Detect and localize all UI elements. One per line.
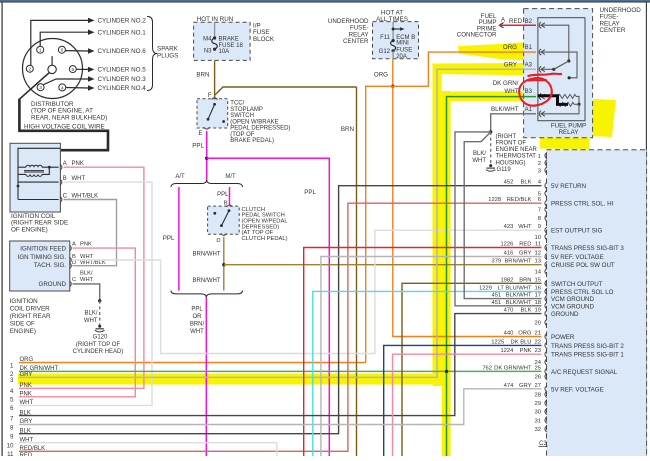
svg-text:451: 451 — [491, 300, 501, 306]
svg-text:VCM GROUND: VCM GROUND — [551, 296, 594, 303]
svg-text:CYLINDER NO.1: CYLINDER NO.1 — [98, 29, 147, 36]
svg-text:BLK: BLK — [20, 410, 31, 416]
wire PNK coil A to row 4 — [19, 167, 144, 388]
svg-text:CLUTCH PEDAL): CLUTCH PEDAL) — [242, 236, 288, 242]
svg-text:WHT: WHT — [72, 176, 86, 182]
svg-text:DK GRN/WHT: DK GRN/WHT — [494, 365, 532, 371]
svg-text:POWER: POWER — [551, 334, 575, 341]
wire GRY 474 pin 27 to row 8 — [19, 389, 542, 425]
svg-text:6: 6 — [61, 48, 64, 54]
svg-text:4: 4 — [61, 85, 64, 91]
svg-text:WHT/BLK: WHT/BLK — [72, 194, 99, 200]
pin E — [204, 127, 210, 129]
right page border — [646, 2, 647, 456]
svg-text:HOUSING): HOUSING) — [496, 160, 526, 166]
svg-text:WHT: WHT — [20, 400, 34, 406]
svg-text:(TOP OF: (TOP OF — [230, 132, 254, 138]
svg-text:A3: A3 — [525, 63, 533, 69]
distributor tower 4 — [59, 84, 66, 91]
svg-text:PPL: PPL — [217, 192, 229, 198]
svg-text:BRAKE: BRAKE — [219, 36, 239, 42]
svg-text:CYLINDER NO.2: CYLINDER NO.2 — [98, 18, 147, 25]
svg-text:BLK/: BLK/ — [473, 151, 486, 157]
svg-text:25: 25 — [534, 365, 541, 371]
highlight horizontal band over GRY row 3 — [18, 374, 447, 385]
svg-text:A: A — [72, 241, 76, 247]
wire BLK 470 pin 19 to row 7 — [19, 314, 542, 416]
svg-text:CENTER: CENTER — [600, 27, 626, 34]
svg-text:2: 2 — [28, 67, 31, 73]
wire to cylinder no.3 — [44, 79, 88, 85]
svg-text:FUSE: FUSE — [396, 48, 412, 54]
wire DK GRN/WHT row 2 to VCM pin 25 — [19, 370, 542, 372]
svg-text:OR: OR — [193, 314, 203, 320]
svg-text:WHT: WHT — [504, 88, 518, 95]
VCM pin 3 — [545, 167, 547, 173]
svg-text:DK BLU: DK BLU — [511, 339, 532, 345]
svg-text:PNK: PNK — [72, 161, 84, 167]
svg-text:DK GRN/: DK GRN/ — [493, 80, 519, 87]
svg-text:416: 416 — [504, 251, 514, 257]
wire DK GRN/WHT relay B3 down — [447, 97, 537, 456]
svg-text:15: 15 — [534, 277, 541, 283]
wire LT BLU/WHT 1229 pin 16 down — [313, 291, 542, 456]
svg-text:CYLINDER NO.6: CYLINDER NO.6 — [98, 48, 147, 55]
svg-text:(OPEN W/BRAKE: (OPEN W/BRAKE — [230, 119, 278, 125]
VCM pin 19 — [545, 310, 547, 316]
svg-text:9: 9 — [538, 224, 541, 230]
highlight blob over ORG wire at relay B1 — [458, 41, 552, 63]
wire ORG to relay B1 — [393, 52, 536, 86]
A/T M/T split brace — [171, 180, 243, 187]
svg-text:E: E — [198, 131, 202, 137]
svg-text:CYLINDER NO.3: CYLINDER NO.3 — [98, 76, 147, 83]
wire BRN fuse to TCC switch pin F — [214, 60, 216, 98]
wire DK BLU 1225 pin 22 down — [384, 345, 542, 456]
wire BRN/WHT to VCM pin 13 CRUISE — [224, 264, 542, 266]
svg-text:D: D — [216, 238, 220, 244]
TCC switch blade — [213, 103, 216, 106]
svg-text:CENTER: CENTER — [343, 38, 369, 45]
wire PNK driver A to row 5 — [19, 248, 135, 397]
svg-text:21: 21 — [534, 331, 541, 337]
svg-text:CYLINDER HEAD): CYLINDER HEAD) — [73, 349, 124, 355]
svg-text:(RIGHT: (RIGHT — [496, 134, 517, 140]
ignition coil driver box — [10, 241, 70, 291]
svg-text:5: 5 — [71, 67, 74, 73]
svg-text:23: 23 — [534, 348, 541, 354]
svg-text:RED/BLK: RED/BLK — [507, 197, 532, 203]
svg-text:RED: RED — [509, 18, 523, 25]
svg-text:HOT IN RUN: HOT IN RUN — [197, 16, 234, 23]
VCM pin 25 — [545, 368, 547, 374]
svg-text:TRANS PRESS SIG-BIT 2: TRANS PRESS SIG-BIT 2 — [551, 343, 624, 350]
arrow CYLINDER NO.1 — [88, 30, 95, 35]
VCM pin 27 — [545, 386, 547, 392]
svg-text:BLK/: BLK/ — [80, 271, 93, 277]
svg-text:8: 8 — [10, 424, 14, 431]
wire PPL to bottom — [205, 297, 207, 456]
svg-text:32: 32 — [534, 427, 541, 433]
ECM B mini fuse symbol — [391, 41, 396, 51]
VCM pin 16 — [545, 288, 547, 294]
I/P fuse block box — [194, 22, 251, 60]
wire BLK/WHT relay A1 to G119 — [491, 114, 536, 132]
pin D — [221, 233, 227, 235]
driver pin C — [69, 281, 71, 287]
svg-text:GRY: GRY — [519, 383, 532, 389]
TCC/stoplamp switch box — [197, 99, 228, 128]
svg-text:F11: F11 — [380, 35, 391, 41]
wire BRN 1982 pin 15 down — [402, 283, 542, 456]
svg-text:RELAY: RELAY — [559, 129, 579, 136]
svg-text:(RIGHT REAR: (RIGHT REAR — [10, 313, 51, 320]
svg-text:C: C — [63, 194, 68, 200]
svg-text:M4: M4 — [203, 36, 212, 42]
svg-text:ENGINE): ENGINE) — [10, 328, 36, 335]
svg-text:29: 29 — [534, 401, 541, 407]
svg-text:3: 3 — [39, 85, 42, 91]
svg-text:(RIGHT TOP OF: (RIGHT TOP OF — [76, 342, 121, 348]
svg-text:BLK: BLK — [521, 308, 532, 314]
svg-text:379: 379 — [491, 259, 501, 265]
svg-text:FRONT OF: FRONT OF — [496, 141, 527, 147]
svg-text:440: 440 — [504, 331, 514, 337]
highlight vertical band over GRY wire — [433, 64, 442, 386]
svg-text:IGN TIMING SIG.: IGN TIMING SIG. — [18, 254, 67, 261]
clutch pedal switch box — [208, 206, 240, 234]
VCM pin 18 — [545, 303, 547, 309]
VCM pin 21 — [545, 333, 547, 339]
wire BLK/WHT driver C to G120 — [73, 284, 100, 301]
relay switch pivot — [567, 59, 570, 62]
svg-text:WHT: WHT — [472, 158, 486, 164]
wire BLK/WHT dashed to G119 — [490, 132, 492, 165]
VCM pin 13 — [545, 262, 547, 268]
svg-text:PRESS CTRL SOL. HI: PRESS CTRL SOL. HI — [551, 201, 614, 208]
svg-text:CRUISE POL SW OUT: CRUISE POL SW OUT — [551, 262, 615, 269]
svg-text:B3: B3 — [525, 89, 533, 95]
VCM pin 15 — [545, 280, 547, 286]
svg-text:G119: G119 — [497, 167, 512, 173]
coil connections — [18, 166, 26, 168]
svg-text:20: 20 — [534, 321, 541, 327]
svg-text:B: B — [63, 176, 67, 182]
svg-text:ORG: ORG — [20, 357, 34, 363]
red annotation circle around relay B3 — [519, 78, 552, 106]
svg-text:WHT: WHT — [20, 437, 34, 443]
svg-text:1982: 1982 — [500, 277, 513, 283]
wire to cylinder no.4 — [66, 87, 88, 90]
relay coil resistor lower — [556, 102, 574, 106]
spark plugs bracket — [147, 16, 157, 90]
svg-text:30: 30 — [534, 410, 541, 416]
coil internal feed line — [18, 148, 60, 199]
VCM pin 14 — [545, 268, 547, 274]
node DK GRN junction — [445, 370, 448, 373]
svg-text:22: 22 — [534, 339, 541, 345]
distributor circle — [23, 39, 83, 99]
svg-text:WHT: WHT — [84, 318, 98, 324]
ground G119 — [487, 167, 495, 169]
VCM pin 30 — [545, 408, 547, 414]
svg-text:VCM GROUND: VCM GROUND — [551, 303, 594, 310]
svg-text:EST OUTPUT SIG: EST OUTPUT SIG — [551, 228, 603, 235]
svg-text:17: 17 — [534, 293, 541, 299]
relay pin A3 — [539, 66, 541, 72]
svg-text:PNK: PNK — [520, 348, 532, 354]
svg-text:WHT: WHT — [80, 277, 94, 283]
svg-text:9: 9 — [10, 434, 14, 441]
svg-text:IGNITION: IGNITION — [10, 298, 38, 305]
svg-text:PNK: PNK — [80, 241, 92, 247]
svg-text:HIGH VOLTAGE COIL WIRE: HIGH VOLTAGE COIL WIRE — [24, 123, 105, 130]
svg-text:12: 12 — [534, 251, 541, 257]
VCM pin 4 — [545, 183, 547, 189]
svg-text:BRN: BRN — [519, 277, 531, 283]
VCM pin 20 — [545, 319, 547, 325]
VCM pin 29 — [545, 400, 547, 406]
VCM pin 31 — [545, 417, 547, 423]
svg-text:BRN/WHT: BRN/WHT — [193, 252, 221, 258]
clutch switch blade — [228, 209, 231, 212]
svg-text:6: 6 — [10, 405, 14, 412]
fuel pump relay box — [538, 18, 585, 121]
svg-text:PPL: PPL — [304, 189, 316, 196]
wire PPL M/T branch — [229, 187, 231, 206]
svg-text:GRY: GRY — [519, 251, 532, 257]
wire ORG to VCM pin 21 POWER — [393, 86, 542, 336]
VCM pin 17 — [545, 295, 547, 301]
ECM B fuse wire — [392, 22, 394, 41]
VCM pin 10 — [545, 234, 547, 240]
svg-text:CONNECTOR: CONNECTOR — [457, 32, 497, 39]
relay pin B1 — [539, 49, 541, 55]
relay coil resistor upper — [558, 94, 576, 98]
merge brace — [171, 291, 243, 298]
high voltage coil wire (diagonal from rotor) — [19, 73, 49, 100]
VCM pin 6 — [545, 200, 547, 206]
node BRN/WHT junction — [222, 263, 225, 266]
svg-text:F: F — [208, 93, 212, 99]
svg-text:762: 762 — [482, 365, 492, 371]
svg-text:ORG: ORG — [518, 331, 532, 337]
svg-text:13: 13 — [534, 259, 541, 265]
svg-text:ALL TIMES: ALL TIMES — [376, 16, 408, 23]
distributor tower 6 — [58, 46, 65, 53]
svg-text:TRANS PRESS SIG-BIT 3: TRANS PRESS SIG-BIT 3 — [551, 245, 624, 252]
svg-text:PPL: PPL — [163, 235, 175, 242]
svg-text:ORG: ORG — [503, 44, 517, 51]
coil pin A — [60, 164, 62, 170]
distributor rotor center — [48, 65, 56, 73]
svg-text:BRAKE PEDAL): BRAKE PEDAL) — [230, 138, 274, 144]
node G119 junction — [489, 130, 492, 133]
VCM pin 32 — [545, 426, 547, 432]
svg-text:PLUGS: PLUGS — [157, 52, 178, 59]
svg-text:26: 26 — [534, 375, 541, 381]
relay pin A1 — [539, 111, 541, 117]
relay switch blade — [554, 61, 569, 69]
svg-text:5: 5 — [10, 397, 14, 404]
svg-text:GROUND: GROUND — [551, 311, 579, 318]
wire ORG fuse to junction — [392, 59, 394, 87]
wire to cylinder no.5 — [76, 68, 88, 70]
svg-text:GRY: GRY — [20, 419, 33, 425]
VCM pin 22 — [545, 342, 547, 348]
svg-text:M/T: M/T — [225, 174, 236, 180]
wire PNK 1224 pin 23 down — [393, 354, 542, 456]
svg-text:GRY: GRY — [20, 372, 33, 378]
black marker stroke B3 — [538, 96, 569, 105]
svg-text:THERMOSTAT: THERMOSTAT — [496, 154, 537, 160]
relay A1 internal path — [541, 104, 579, 114]
wire to cylinder no.1 — [40, 32, 88, 46]
node ORG junction — [391, 85, 394, 88]
svg-text:MINI: MINI — [396, 41, 409, 47]
svg-text:11: 11 — [535, 242, 541, 248]
svg-text:B1: B1 — [525, 45, 533, 51]
highlight behind relay coil marker — [552, 92, 570, 107]
arrow CYLINDER NO.6 — [88, 48, 95, 53]
svg-text:10A: 10A — [219, 49, 230, 55]
clutch contact dot — [213, 212, 216, 215]
distributor tower 5 — [69, 66, 76, 73]
relay B2 internal path — [541, 25, 569, 60]
driver pin B — [69, 257, 71, 263]
coil secondary winding — [26, 165, 42, 167]
svg-text:BLK/WHT: BLK/WHT — [491, 106, 519, 113]
wire BRN/WHT from clutch switch — [223, 237, 225, 291]
svg-text:7: 7 — [538, 208, 541, 214]
node G120 junction — [98, 299, 101, 302]
svg-text:451: 451 — [491, 293, 501, 299]
wire BLK/WHT dashed to G120 — [99, 301, 101, 326]
VCM pin 12 — [545, 253, 547, 259]
arrow CYLINDER NO.5 — [88, 67, 95, 72]
svg-text:423: 423 — [504, 224, 514, 230]
highlight vertical band over DK GRN wire — [442, 91, 451, 456]
wire RED fuel pump prime to relay B2 — [499, 23, 503, 28]
svg-text:BRN: BRN — [196, 72, 209, 79]
distributor tower 3 — [37, 84, 44, 91]
svg-text:WHT/BLK: WHT/BLK — [80, 260, 106, 266]
VCM pin 23 — [545, 351, 547, 357]
svg-text:BRN: BRN — [341, 126, 354, 133]
svg-text:WHT: WHT — [518, 224, 532, 230]
wire WHT/BLK coil C to driver D — [64, 200, 117, 266]
wire ORG junction left — [366, 86, 393, 362]
distributor tower 1 — [37, 46, 44, 53]
svg-text:2: 2 — [538, 161, 541, 167]
svg-text:STOPLAMP: STOPLAMP — [230, 107, 263, 113]
svg-text:TCC/: TCC/ — [230, 101, 244, 107]
node PPL junction — [205, 157, 208, 160]
relay coil right join — [576, 96, 579, 104]
svg-text:BRN/WHT: BRN/WHT — [504, 259, 532, 265]
svg-text:20A: 20A — [396, 54, 407, 60]
highlight strip over DK GRN wire to relay B3 — [448, 92, 540, 102]
wire to cylinder no.2 — [31, 20, 88, 65]
ground G120 — [96, 328, 104, 330]
svg-text:REAR, NEAR BULKHEAD): REAR, NEAR BULKHEAD) — [31, 114, 107, 121]
ignition coil box — [10, 143, 60, 212]
VCM pin 28 — [545, 391, 547, 397]
arrow CYLINDER NO.2 — [88, 18, 95, 23]
highlight strip over GRY wire to relay A3 — [433, 63, 551, 76]
driver pin D — [69, 263, 71, 269]
svg-text:1229: 1229 — [479, 285, 492, 291]
node dot near box edge — [222, 120, 225, 123]
svg-text:B2: B2 — [525, 19, 533, 25]
svg-text:470: 470 — [504, 308, 514, 314]
svg-text:BLK/WHT: BLK/WHT — [506, 293, 532, 299]
svg-text:SWITCH OUTPUT: SWITCH OUTPUT — [551, 281, 603, 288]
wire PPL from TCC pin E — [206, 131, 208, 180]
arrow CYLINDER NO.4 — [88, 85, 95, 90]
top title bar — [0, 0, 650, 1]
svg-text:A/T: A/T — [175, 174, 185, 180]
wire BLK 452 pin 4 to row 9 — [19, 186, 542, 434]
svg-text:BLOCK: BLOCK — [253, 36, 275, 43]
svg-text:1225: 1225 — [491, 339, 504, 345]
svg-text:COIL DRIVER: COIL DRIVER — [10, 306, 50, 313]
wire WHT coil B to row 6 — [19, 182, 152, 405]
brake fuse 18 wire — [214, 22, 216, 37]
svg-text:D: D — [72, 260, 76, 266]
red annotation squiggle — [528, 74, 563, 77]
wire BLK/WHT 451 pin 18 to G119 — [455, 132, 542, 306]
svg-text:5V RETURN: 5V RETURN — [551, 183, 586, 190]
svg-text:14: 14 — [534, 270, 541, 276]
high voltage coil wire run — [19, 99, 108, 150]
svg-text:A: A — [63, 161, 67, 167]
wire BRN branch to trans (bevel corner) — [215, 87, 357, 95]
VCM pin 9 — [545, 227, 547, 233]
coil primary winding — [26, 174, 42, 176]
VCM pin 1 — [545, 152, 547, 158]
svg-text:10: 10 — [7, 443, 14, 450]
svg-text:BLK/WHT: BLK/WHT — [506, 300, 532, 306]
relay pin B3 — [539, 93, 541, 99]
wire RED/BLK 1228 pin 6 to row 11 — [19, 203, 542, 451]
wire PPL A/T branch — [178, 187, 180, 291]
wire BLK/WHT 451 pin 17 to G119 — [464, 132, 541, 299]
svg-text:PPL: PPL — [192, 143, 204, 150]
svg-text:PRESS CTRL SOL LO: PRESS CTRL SOL LO — [551, 289, 614, 296]
wire GRY relay A3 to row 3 — [19, 69, 536, 377]
svg-text:4: 4 — [10, 388, 14, 395]
svg-text:G12: G12 — [379, 49, 391, 55]
wire ORG row 1 — [19, 362, 366, 364]
svg-text:1224: 1224 — [500, 348, 514, 354]
svg-text:A/C REQUEST SIGNAL: A/C REQUEST SIGNAL — [551, 369, 618, 376]
svg-text:BLK: BLK — [521, 180, 532, 186]
svg-text:TRANS PRESS SIG-BIT 1: TRANS PRESS SIG-BIT 1 — [551, 352, 624, 359]
svg-text:SIDE OF: SIDE OF — [10, 320, 35, 327]
wire PPL branch right — [207, 158, 330, 456]
svg-text:10: 10 — [534, 235, 541, 241]
wire WHT driver B EST loop to VCM pin 9 — [73, 230, 542, 353]
brake fuse symbol — [212, 38, 217, 49]
svg-text:G120: G120 — [93, 334, 108, 340]
svg-text:C: C — [72, 277, 76, 283]
VCM pin 7 — [545, 206, 547, 212]
driver pin A — [69, 245, 71, 251]
highlight swipe under fuel pump relay — [540, 99, 616, 150]
wire WHT row 10 down — [19, 443, 277, 456]
VCM connector dashed box — [547, 150, 647, 461]
